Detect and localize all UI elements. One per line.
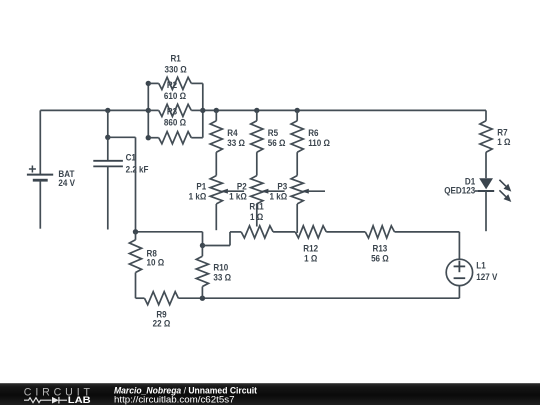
footer bar — [0, 383, 540, 405]
battery BAT top lead — [39, 110, 41, 174]
battery BAT short plate — [33, 179, 48, 182]
diode D1 bottom lead stub — [485, 191, 487, 231]
svg-text:10 Ω: 10 Ω — [147, 257, 165, 268]
diode D1 triangle — [479, 178, 493, 189]
potentiometer P1 body — [210, 176, 222, 204]
wire C1-junction to mid rail — [108, 136, 136, 138]
wire step lower — [203, 245, 231, 247]
svg-text:C1: C1 — [126, 152, 136, 163]
svg-text:56 Ω: 56 Ω — [268, 137, 286, 148]
svg-text:33 Ω: 33 Ω — [213, 272, 231, 283]
wire L1 bottom lead — [458, 286, 460, 299]
svg-text:R11: R11 — [249, 201, 263, 212]
wire step up — [229, 232, 231, 246]
resistor R11 body — [241, 226, 273, 238]
node R10 bottom junction — [200, 296, 205, 301]
wire bottom from L1 to R9 — [178, 297, 459, 299]
wire to R11 — [230, 231, 241, 233]
wire R13 to L1 — [395, 231, 460, 233]
potentiometer P1 bottom stub — [215, 204, 217, 230]
capacitor C1 bottom lead stub — [107, 166, 109, 229]
resistor R3 left lead — [148, 137, 158, 139]
wire C1 branch upper — [107, 110, 109, 137]
potentiometer P1 wiper arrow — [220, 189, 228, 194]
svg-text:110 Ω: 110 Ω — [308, 137, 330, 148]
svg-text:1 Ω: 1 Ω — [497, 136, 510, 147]
svg-text:330 Ω: 330 Ω — [165, 64, 187, 75]
wire top from parallel block to R7 — [203, 109, 486, 111]
wire R12 to R13 — [326, 231, 365, 233]
wire R6 to P3 — [296, 152, 298, 175]
source L1 circle — [446, 259, 472, 285]
svg-text:1 kΩ: 1 kΩ — [270, 191, 288, 202]
potentiometer P3 body — [291, 176, 303, 204]
resistor R10 bottom lead — [201, 287, 203, 299]
battery BAT long plate — [27, 174, 53, 176]
resistor R8 body — [129, 240, 141, 273]
resistor R9 body — [145, 292, 179, 305]
wire down to L1 — [458, 232, 460, 259]
resistor R1 left lead — [148, 82, 158, 84]
battery plus sign — [29, 168, 36, 170]
wire R7 to D1 — [485, 152, 487, 178]
svg-text:R1: R1 — [170, 53, 180, 64]
resistor R4 body — [210, 121, 222, 152]
resistor R10 top lead — [201, 246, 203, 257]
svg-text:http://circuitlab.com/c62t5s7: http://circuitlab.com/c62t5s7 — [114, 395, 235, 405]
logo zigzag-diode symbol — [24, 398, 52, 403]
node right rail middle — [200, 108, 205, 113]
svg-text:2.2 kF: 2.2 kF — [126, 164, 149, 175]
wire step down — [202, 232, 204, 246]
svg-text:R6: R6 — [308, 127, 318, 138]
resistor R2 body — [159, 104, 192, 116]
node junction top wire / C1 branch — [105, 108, 110, 113]
svg-text:22 Ω: 22 Ω — [153, 318, 171, 329]
resistor R13 body — [365, 226, 394, 238]
svg-text:1 Ω: 1 Ω — [250, 211, 263, 222]
svg-text:1 Ω: 1 Ω — [304, 253, 317, 264]
potentiometer P3 wiper arrow — [301, 189, 309, 194]
resistor R10 body — [196, 256, 208, 286]
resistor R5 body — [251, 121, 263, 152]
resistor R5 top lead — [256, 110, 258, 120]
wire R5 to P2 — [256, 152, 258, 175]
svg-text:56 Ω: 56 Ω — [371, 253, 389, 264]
resistor R1 right lead — [191, 82, 203, 84]
diode D1 light arrow 1 — [499, 180, 506, 186]
wire right rail of R1/R2/R3 block — [202, 83, 204, 137]
potentiometer P2 body — [251, 176, 263, 204]
svg-text:1 kΩ: 1 kΩ — [189, 191, 207, 202]
svg-text:P1: P1 — [196, 181, 206, 192]
svg-text:R12: R12 — [303, 243, 318, 254]
resistor R4 top lead — [215, 110, 217, 120]
label D1 connector dash — [475, 190, 479, 192]
potentiometer P2 bottom lead — [256, 204, 258, 227]
node left rail bottom — [146, 135, 151, 140]
source L1 plus sign — [454, 265, 466, 267]
svg-text:LAB: LAB — [68, 395, 91, 405]
diode D1 light arrow 2 — [499, 190, 506, 196]
resistor R2 left lead — [148, 109, 158, 111]
resistor R8 top lead — [135, 232, 137, 240]
resistor R2 right lead — [191, 109, 203, 111]
wire R8 node to step — [136, 231, 203, 233]
resistor R1 body — [159, 77, 192, 89]
resistor R6 top lead — [296, 110, 298, 120]
svg-text:R2: R2 — [167, 79, 177, 90]
svg-text:R5: R5 — [268, 127, 278, 138]
svg-text:610 Ω: 610 Ω — [164, 90, 186, 101]
node top wire / R5 — [254, 108, 259, 113]
node top wire / R4 — [214, 108, 219, 113]
resistor R12 body — [295, 226, 326, 238]
capacitor C1 top plate — [93, 160, 123, 162]
svg-text:L1: L1 — [476, 260, 485, 271]
node R10 top junction — [200, 243, 205, 248]
capacitor C1 bottom plate — [93, 165, 123, 167]
node top wire / R6 — [295, 108, 300, 113]
resistor R3 body — [159, 132, 192, 144]
svg-text:R4: R4 — [227, 127, 237, 138]
potentiometer P2 wiper arrow — [261, 189, 269, 194]
svg-text:R13: R13 — [373, 243, 388, 254]
resistor R7 body — [480, 121, 492, 152]
svg-text:33 Ω: 33 Ω — [227, 137, 245, 148]
wire R11 to R12 — [273, 231, 295, 233]
svg-text:P3: P3 — [277, 181, 287, 192]
node left rail top — [146, 81, 151, 86]
wire left rail of R1/R2/R3 block — [147, 83, 149, 137]
wire to C1 top plate — [107, 137, 109, 160]
node junction C1 / R8 branch — [105, 135, 110, 140]
wire down to R7 — [485, 110, 487, 120]
diode D1 cathode bar — [478, 190, 494, 192]
resistor R3 right lead — [191, 137, 203, 139]
wire R9 to R8 corner — [136, 297, 145, 299]
battery bottom lead stub — [39, 180, 41, 229]
svg-text:R3: R3 — [167, 106, 177, 117]
resistor R8 bottom lead — [135, 273, 137, 299]
node left rail middle — [146, 108, 151, 113]
node R8 top junction — [133, 229, 138, 234]
svg-text:QED123: QED123 — [444, 185, 475, 196]
wire top-left from battery to parallel block — [40, 109, 148, 111]
svg-text:1 kΩ: 1 kΩ — [229, 191, 247, 202]
resistor R6 body — [291, 121, 303, 152]
potentiometer P3 bottom lead — [296, 204, 298, 233]
svg-text:P2: P2 — [237, 181, 247, 192]
svg-text:860 Ω: 860 Ω — [164, 117, 186, 128]
svg-text:24 V: 24 V — [58, 178, 75, 189]
source L1 minus sign — [454, 277, 466, 279]
svg-text:127 V: 127 V — [476, 271, 497, 282]
wire R4 to P1 — [215, 152, 217, 175]
